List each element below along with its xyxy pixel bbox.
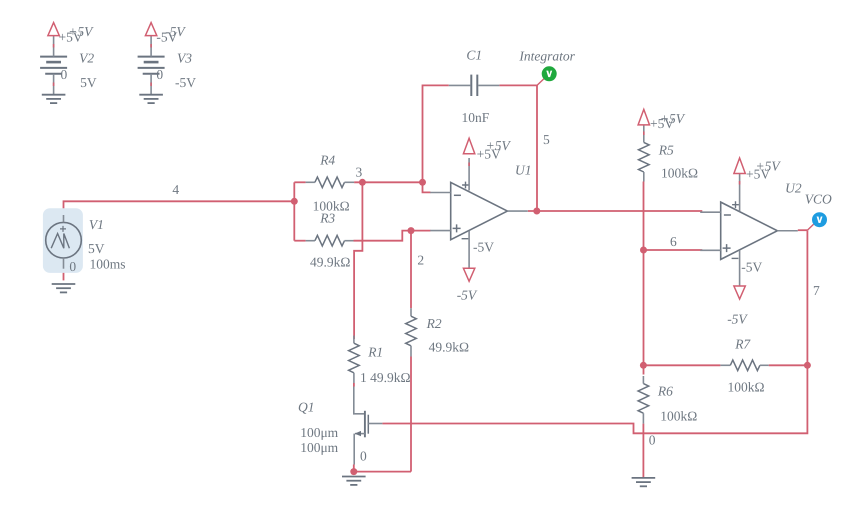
svg-text:-5V: -5V [741,260,762,275]
svg-text:R2: R2 [426,316,442,331]
svg-text:-5V: -5V [727,312,748,327]
svg-text:0: 0 [156,67,163,82]
svg-text:R5: R5 [658,142,674,157]
svg-text:-5V: -5V [457,287,478,302]
svg-text:U1: U1 [515,163,532,178]
svg-text:49.9kΩ: 49.9kΩ [310,255,350,270]
svg-text:-5V: -5V [175,75,196,90]
svg-text:2: 2 [417,253,424,268]
svg-text:100ms: 100ms [90,257,126,272]
svg-text:C1: C1 [466,47,482,62]
svg-text:5V: 5V [80,75,97,90]
svg-text:+5V: +5V [486,138,512,153]
svg-text:5V: 5V [88,241,105,256]
svg-text:100μm: 100μm [300,425,338,440]
svg-text:0: 0 [69,259,76,274]
svg-text:4: 4 [172,182,179,197]
svg-text:100kΩ: 100kΩ [660,409,697,424]
svg-text:V3: V3 [177,51,192,66]
svg-text:U2: U2 [785,180,802,195]
svg-text:+5V: +5V [68,24,94,39]
svg-text:100kΩ: 100kΩ [661,166,698,181]
svg-text:R3: R3 [319,211,335,226]
svg-text:-5V: -5V [473,240,494,255]
svg-text:+5V: +5V [660,111,686,126]
svg-text:VCO: VCO [805,191,832,206]
svg-text:R6: R6 [657,384,673,399]
svg-text:Q1: Q1 [298,400,315,415]
svg-text:7: 7 [813,283,820,298]
svg-text:R1: R1 [367,345,383,360]
svg-text:10nF: 10nF [462,110,490,125]
svg-text:+5V: +5V [756,159,782,174]
svg-text:0: 0 [649,432,656,447]
svg-text:V2: V2 [79,51,94,66]
svg-text:R7: R7 [734,337,751,352]
svg-text:-5V: -5V [165,24,186,39]
svg-text:V1: V1 [89,217,104,232]
svg-text:1 49.9kΩ: 1 49.9kΩ [360,370,411,385]
svg-text:0: 0 [360,449,367,464]
svg-text:100μm: 100μm [300,440,338,455]
svg-text:R4: R4 [319,153,335,168]
svg-text:100kΩ: 100kΩ [728,380,765,395]
svg-text:5: 5 [543,132,550,147]
svg-text:Integrator: Integrator [518,48,575,63]
svg-text:3: 3 [356,164,363,179]
svg-text:0: 0 [61,67,68,82]
svg-text:49.9kΩ: 49.9kΩ [429,340,469,355]
svg-text:6: 6 [670,234,677,249]
